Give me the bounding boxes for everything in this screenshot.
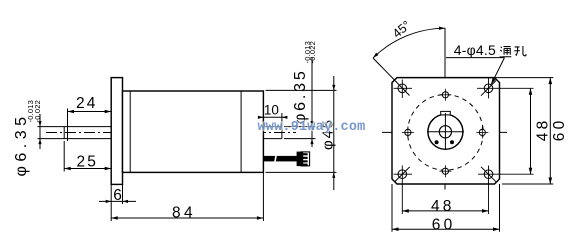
svg-text:4-φ4.5: 4-φ4.5 [454, 42, 496, 58]
svg-text:-0.022: -0.022 [308, 41, 317, 63]
svg-text:25: 25 [76, 153, 98, 170]
svg-text:10: 10 [264, 103, 279, 118]
svg-text:www.91way.com: www.91way.com [258, 120, 366, 135]
svg-text:60: 60 [432, 216, 456, 233]
svg-text:84: 84 [172, 204, 196, 221]
svg-text:6: 6 [113, 187, 122, 204]
svg-text:φ6.35: φ6.35 [292, 68, 309, 124]
svg-text:24: 24 [76, 95, 98, 112]
svg-text:60: 60 [551, 118, 568, 142]
svg-text:-0.022: -0.022 [33, 100, 42, 122]
svg-text:48: 48 [535, 118, 552, 142]
svg-text:48: 48 [431, 198, 455, 215]
